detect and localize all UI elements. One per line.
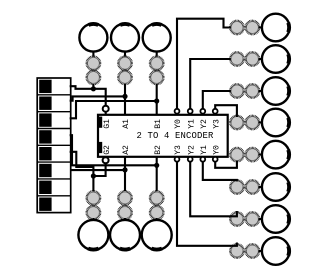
svg-text:Y3: Y3 bbox=[174, 145, 183, 155]
node B2 junction bbox=[154, 163, 159, 168]
LED D10 (right output 4) bbox=[262, 109, 290, 137]
wire resistor R13 to LED D13 bbox=[259, 218, 263, 220]
svg-text:2 TO 4 ENCODER: 2 TO 4 ENCODER bbox=[136, 131, 214, 141]
wire switch row4 to node B2 bbox=[71, 135, 157, 165]
svg-text:A2: A2 bbox=[122, 145, 131, 155]
wire pin B2 to resistor R6 bbox=[156, 157, 158, 191]
LED D9 (right output 3) bbox=[262, 77, 290, 105]
resistor R6 (two-circle symbol) bbox=[150, 191, 163, 204]
LED D2 (top input indicator 2) bbox=[111, 24, 139, 52]
svg-text:Y1: Y1 bbox=[187, 119, 196, 129]
inverter bubble on pin G1 bbox=[103, 106, 109, 112]
wire resistor R10 to LED D10 bbox=[259, 121, 263, 123]
wire resistor R6 to LED D6 bbox=[156, 218, 158, 222]
wire LED D3 to resistor R3 bbox=[156, 51, 158, 57]
node A1 junction bbox=[122, 94, 127, 99]
switch bank S1 black toggle squares (rows 1-8) bbox=[39, 80, 51, 93]
pin Y3 bottom terminal bbox=[175, 157, 180, 162]
resistor R9 (two-circle symbol) bbox=[230, 84, 243, 97]
svg-text:G1: G1 bbox=[103, 119, 112, 129]
node A2 junction bbox=[122, 167, 127, 172]
wire pin Y3 top stub bbox=[214, 108, 216, 115]
wire resistor R11 to LED D11 bbox=[259, 154, 263, 156]
resistor R1 (two-circle symbol) bbox=[87, 57, 100, 70]
node G1 junction bbox=[91, 86, 96, 91]
node G2 junction bbox=[91, 173, 96, 178]
wire resistor R9 to LED D9 bbox=[259, 90, 263, 92]
LED D3 (top input indicator 3) bbox=[143, 24, 171, 52]
wire switch row5 to node G2 bbox=[71, 152, 94, 176]
LED D8 (right output 2) bbox=[262, 45, 290, 73]
resistor R12 (two-circle symbol) bbox=[230, 180, 243, 193]
wire pin Y1 to resistor R8 bbox=[190, 59, 230, 111]
wire switch row1 to pin G1 corner bbox=[71, 86, 106, 105]
wire resistor R14 to LED D14 bbox=[259, 250, 263, 252]
wire pin Y3 bottom stub bbox=[176, 157, 178, 162]
pin Y1 bottom terminal bbox=[200, 157, 205, 162]
LED D5 (bottom input indicator 2) bbox=[110, 220, 140, 250]
LED D12 (right output 6) bbox=[262, 173, 290, 201]
LED D4 (bottom input indicator 1) bbox=[78, 220, 108, 250]
resistor R2 (two-circle symbol) bbox=[118, 57, 131, 70]
wire resistor R5 to LED D5 bbox=[124, 218, 126, 222]
IC U1 G2 pin marker bar bbox=[99, 142, 102, 153]
svg-text:Y1: Y1 bbox=[200, 145, 209, 155]
svg-text:G2: G2 bbox=[103, 145, 112, 155]
resistor R7 (two-circle symbol) bbox=[230, 21, 243, 34]
IC U1 G1 pin marker bar bbox=[99, 117, 102, 128]
LED D1 (top input indicator 1) bbox=[79, 24, 107, 52]
wire pin Y3 to resistor R10 bbox=[215, 105, 237, 116]
wire pin G1 bubble to IC edge bbox=[105, 112, 107, 115]
wire pin Y2 bottom stub bbox=[189, 157, 191, 162]
wire switch row3 to node B1 bbox=[71, 101, 157, 118]
wire resistor R8 to LED D8 bbox=[259, 58, 263, 60]
wire switch row6 to node A2 bbox=[71, 169, 125, 171]
wire resistor R2 bottom to pin A1 bbox=[124, 84, 126, 115]
LED D11 (right output 5) bbox=[262, 141, 290, 169]
wire pin Y2 top stub bbox=[202, 108, 204, 115]
svg-text:Y0: Y0 bbox=[212, 145, 221, 155]
svg-text:Y2: Y2 bbox=[200, 119, 209, 129]
resistor R14 (two-circle symbol) bbox=[230, 244, 243, 257]
wire switch row2 to node A1 bbox=[71, 96, 125, 100]
resistor R13 (two-circle symbol) bbox=[230, 212, 243, 225]
svg-text:Y0: Y0 bbox=[174, 119, 183, 129]
wire resistor R4 to LED D4 bbox=[92, 218, 94, 222]
IC U1 body (2 TO 4 ENCODER) bbox=[98, 115, 228, 157]
switch bank S1 (8-way DIP, outline and row dividers) bbox=[37, 78, 70, 213]
resistor R11 (two-circle symbol) bbox=[230, 148, 243, 161]
resistor R8 (two-circle symbol) bbox=[230, 52, 243, 65]
wire pin A2 to resistor R5 bbox=[124, 157, 126, 191]
svg-text:B2: B2 bbox=[154, 145, 163, 155]
wire pin Y0 to resistor R7 (top route) bbox=[177, 19, 230, 112]
wire resistor R1 bottom to node G1 bbox=[92, 84, 94, 89]
pin Y1 top terminal bbox=[188, 109, 193, 114]
wire pin Y0 top stub bbox=[176, 108, 178, 115]
svg-text:Y2: Y2 bbox=[187, 145, 196, 155]
LED D7 (right output 1) bbox=[262, 14, 290, 42]
LED D14 (right output 8) bbox=[262, 237, 290, 265]
resistor R3 (two-circle symbol) bbox=[150, 57, 163, 70]
inverter bubble on pin G2 bbox=[103, 157, 109, 163]
pin Y0 top terminal bbox=[175, 109, 180, 114]
wire LED D2 to resistor R2 bbox=[124, 51, 126, 57]
wire resistor R12 to LED D12 bbox=[259, 186, 263, 188]
wire pin Y1 to resistor R12 bbox=[203, 159, 237, 180]
svg-text:B1: B1 bbox=[154, 119, 163, 129]
wire pin G2 bubble to IC edge bbox=[105, 157, 107, 158]
wire pin Y3 to resistor R14 (long left route) bbox=[177, 159, 237, 246]
wire pin Y0 to resistor R11 bbox=[215, 159, 237, 168]
wire pin Y0 bottom stub bbox=[214, 157, 216, 162]
wire resistor R3 bottom to pin B1 bbox=[156, 84, 158, 115]
pin Y2 bottom terminal bbox=[188, 157, 193, 162]
wire LED D1 to resistor R1 bbox=[92, 51, 94, 57]
wire node G2 to pin G2 bubble bbox=[93, 164, 105, 176]
wire pin Y1 bottom stub bbox=[202, 157, 204, 162]
wire resistor R7 to LED D7 bbox=[259, 26, 263, 28]
resistor R5 (two-circle symbol) bbox=[118, 191, 131, 204]
svg-text:Y3: Y3 bbox=[212, 119, 221, 129]
wire node G2 junction down to resistor R4 bbox=[92, 176, 94, 191]
pin Y0 bottom terminal bbox=[213, 157, 218, 162]
pin Y3 top terminal bbox=[213, 109, 218, 114]
LED D13 (right output 7) bbox=[262, 205, 290, 233]
svg-text:A1: A1 bbox=[122, 119, 131, 129]
wire pin Y2 to resistor R13 bbox=[190, 159, 237, 216]
wire pin Y2 to resistor R9 bbox=[203, 91, 230, 111]
node B1 junction bbox=[154, 98, 159, 103]
resistor R4 (two-circle symbol) bbox=[87, 191, 100, 204]
wire pin Y1 top stub bbox=[189, 108, 191, 115]
resistor R10 (two-circle symbol) bbox=[230, 116, 243, 129]
pin Y2 top terminal bbox=[200, 109, 205, 114]
LED D6 (bottom input indicator 3) bbox=[142, 220, 172, 250]
